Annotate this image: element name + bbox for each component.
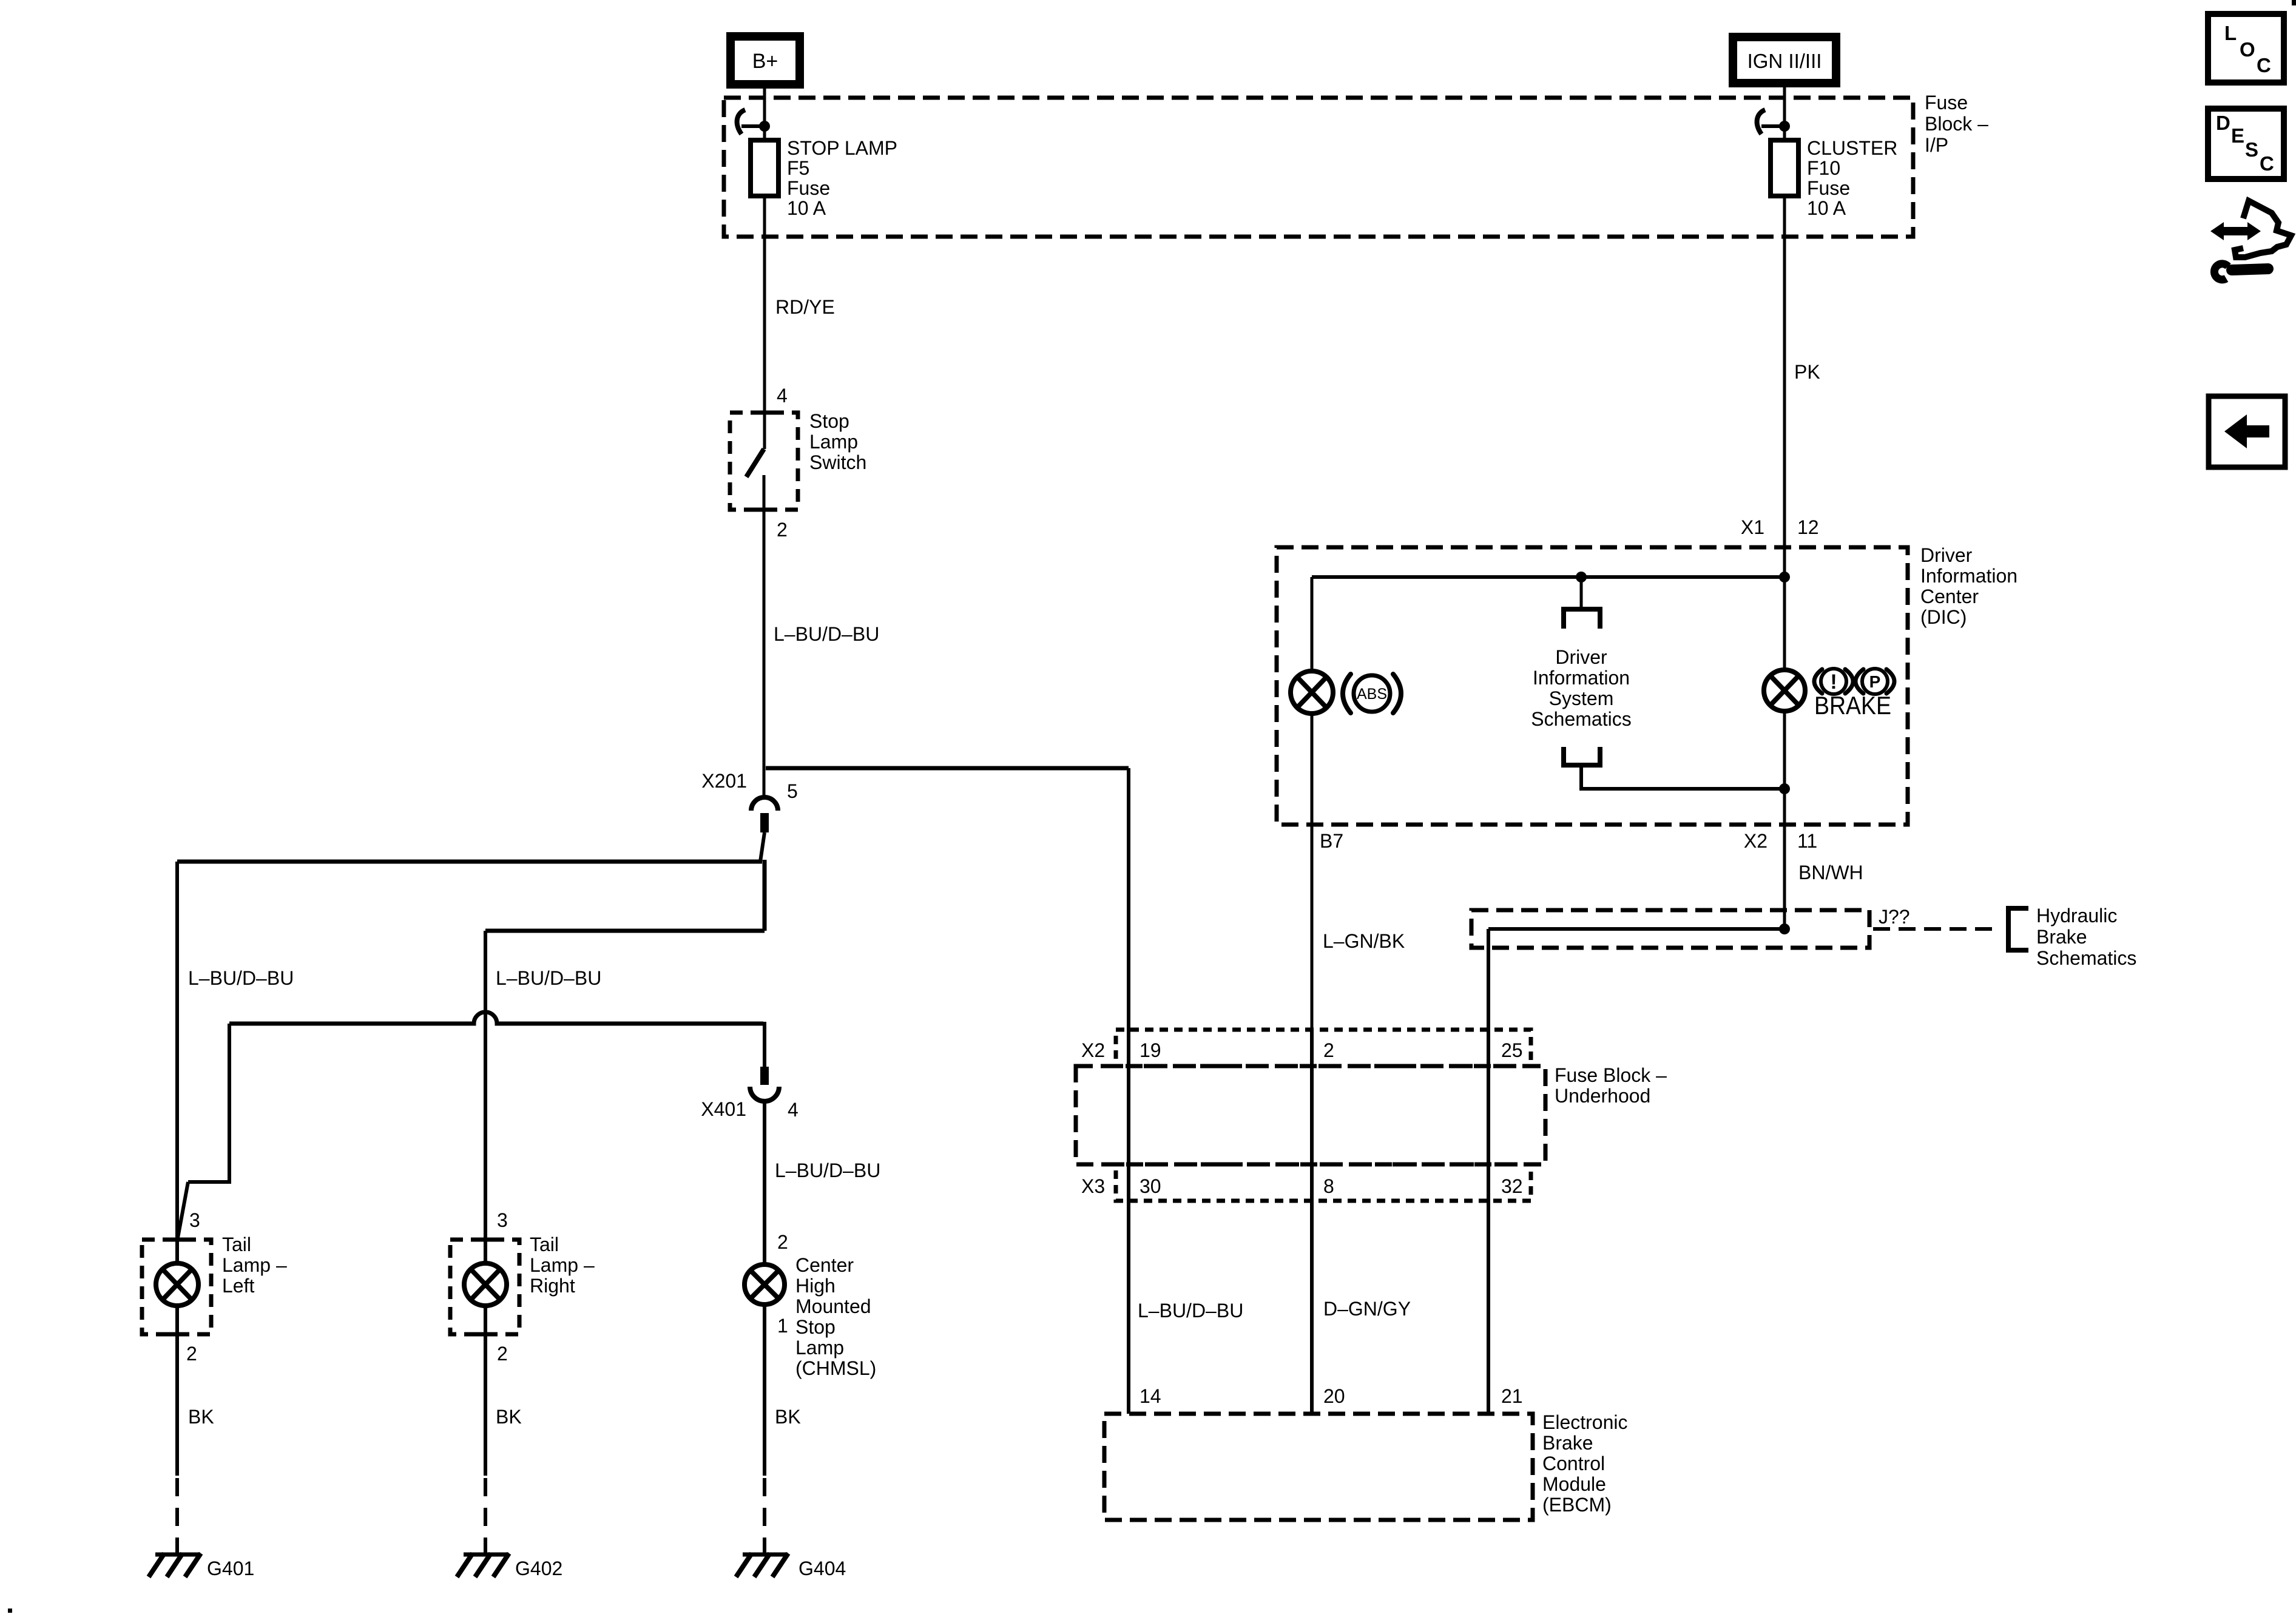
svg-text:10 A: 10 A xyxy=(1807,197,1846,219)
svg-text:Electronic: Electronic xyxy=(1542,1411,1628,1433)
power node B+ xyxy=(731,36,800,84)
svg-text:Fuse: Fuse xyxy=(1925,92,1968,113)
wire tail lamp right riser down xyxy=(484,931,487,1240)
wire left drop from CHMSL run xyxy=(188,1024,229,1182)
svg-text:Lamp –: Lamp – xyxy=(530,1254,595,1276)
svg-text:Mounted: Mounted xyxy=(795,1295,871,1317)
svg-text:3: 3 xyxy=(497,1209,508,1231)
svg-text:O: O xyxy=(2240,38,2255,61)
svg-text:5: 5 xyxy=(787,780,798,802)
pin 2 tick tail lamp right xyxy=(475,1332,496,1337)
svg-text:D: D xyxy=(2216,112,2230,134)
svg-text:C: C xyxy=(2257,54,2271,76)
fuse block underhood main dashed box xyxy=(1076,1066,1545,1164)
bus bar hook at fuse F10 xyxy=(1757,110,1765,134)
svg-text:2: 2 xyxy=(1323,1039,1334,1061)
svg-text:Tail: Tail xyxy=(530,1234,559,1255)
svg-text:X401: X401 xyxy=(701,1098,746,1120)
svg-text:RD/YE: RD/YE xyxy=(775,296,835,318)
svg-text:C: C xyxy=(2260,152,2274,175)
wire riser down to fuse block underhood pin 25 xyxy=(1487,929,1490,1030)
svg-text:25: 25 xyxy=(1501,1039,1523,1061)
svg-text:F10: F10 xyxy=(1807,157,1840,179)
wire tail lamp right lamp to pin 2 xyxy=(484,1306,487,1476)
wire ABS telltale to DIC bottom edge xyxy=(1311,714,1314,825)
ground G401 xyxy=(155,1553,200,1557)
fuse block I/P dashed outline xyxy=(724,98,1913,237)
svg-text:Center: Center xyxy=(1920,586,1979,607)
svg-text:G402: G402 xyxy=(515,1558,562,1579)
svg-text:I/P: I/P xyxy=(1925,134,1948,156)
wire bus tap to fuse F5 xyxy=(741,124,765,128)
ground G404 xyxy=(743,1553,788,1557)
svg-text:Center: Center xyxy=(795,1254,854,1276)
wire pin 19 through fuse block underhood xyxy=(1127,1030,1130,1204)
tail lamp left dashed box xyxy=(142,1240,211,1334)
svg-text:High: High xyxy=(795,1275,836,1297)
wire DIS schematics stem bottom to BRAKE leg xyxy=(1581,765,1784,789)
pin 3 tick tail lamp left xyxy=(167,1238,187,1242)
DIS schematics bottom bracket xyxy=(1564,747,1600,765)
svg-text:12: 12 xyxy=(1797,516,1819,538)
junction J dashed box xyxy=(1471,910,1869,948)
svg-text:L–BU/D–BU: L–BU/D–BU xyxy=(188,967,294,989)
svg-text:BRAKE: BRAKE xyxy=(1814,691,1891,720)
wire tail lamp left drop xyxy=(175,862,179,1263)
BRAKE (P) indicator circle xyxy=(1862,669,1888,694)
svg-text:F5: F5 xyxy=(787,157,809,179)
svg-text:Brake: Brake xyxy=(1542,1432,1593,1454)
EBCM dashed box xyxy=(1104,1414,1533,1520)
wire CHMSL riser down to connector X401 xyxy=(763,1022,766,1067)
svg-text:Fuse Block –: Fuse Block – xyxy=(1555,1064,1667,1086)
pin 3 tick tail lamp right xyxy=(475,1238,496,1242)
pin 4 tick at stop lamp switch xyxy=(754,411,775,415)
wire corner riser down from splice run xyxy=(763,860,767,931)
svg-text:Lamp: Lamp xyxy=(809,431,858,453)
wire right riser down to fuse block underhood pin 19 xyxy=(1127,768,1130,1030)
svg-text:2: 2 xyxy=(777,519,788,541)
svg-text:2: 2 xyxy=(777,1231,788,1253)
wire BK dashed to ground G401 xyxy=(175,1478,179,1555)
svg-text:G401: G401 xyxy=(207,1558,254,1579)
svg-text:(EBCM): (EBCM) xyxy=(1542,1494,1612,1516)
wire L-BU/D-BU splice run to tail lamp left xyxy=(177,860,762,864)
lamp tail left xyxy=(156,1263,198,1306)
svg-text:19: 19 xyxy=(1140,1039,1161,1061)
wire X401 to CHMSL lamp xyxy=(763,1102,766,1264)
ground G402 xyxy=(464,1553,508,1557)
svg-text:G404: G404 xyxy=(799,1558,846,1579)
svg-text:STOP LAMP: STOP LAMP xyxy=(787,137,897,159)
wire PK fuse F10 down to DIC pin X1-12 xyxy=(1783,196,1786,577)
pin 2 tick tail lamp left xyxy=(167,1332,187,1337)
junction dot DIC bottom right xyxy=(1779,783,1790,794)
wire L-BU/D-BU to EBCM pin 14 xyxy=(1127,1204,1130,1414)
svg-text:(DIC): (DIC) xyxy=(1920,606,1967,628)
junction dot J splice xyxy=(1779,923,1790,934)
svg-text:L: L xyxy=(2224,22,2237,44)
svg-text:X2: X2 xyxy=(1744,830,1768,852)
wire BK dashed to ground G402 xyxy=(484,1478,487,1555)
lamp BRAKE telltale xyxy=(1764,670,1805,711)
wire RD/YE fuse F5 to stop lamp switch pin 4 xyxy=(763,196,766,449)
stop lamp switch dashed box xyxy=(730,413,798,510)
wire DIC internal top run xyxy=(1312,575,1784,579)
svg-text:Control: Control xyxy=(1542,1453,1605,1474)
svg-text:B+: B+ xyxy=(752,50,778,73)
wire IGN II/III feed into fuse block I/P xyxy=(1783,83,1786,140)
svg-text:BK: BK xyxy=(775,1406,801,1428)
wire B+ feed into fuse block I/P xyxy=(763,83,766,140)
wire DIS schematics stem top xyxy=(1580,577,1583,609)
svg-text:!: ! xyxy=(1830,670,1837,694)
wire BN/WH junction run to left riser xyxy=(1488,927,1784,931)
svg-text:Driver: Driver xyxy=(1555,646,1607,668)
svg-text:2: 2 xyxy=(186,1343,197,1365)
junction dot DIS stem xyxy=(1576,572,1587,582)
connector X401 halves xyxy=(760,1067,769,1085)
svg-text:11: 11 xyxy=(1797,830,1817,852)
svg-text:10 A: 10 A xyxy=(787,197,826,219)
svg-text:System: System xyxy=(1549,687,1614,709)
fuse block underhood connector row X2 dashed xyxy=(1116,1030,1531,1066)
svg-text:Schematics: Schematics xyxy=(2036,947,2136,969)
wire tail lamp right into lamp xyxy=(484,1240,487,1263)
svg-text:Lamp –: Lamp – xyxy=(222,1254,287,1276)
lamp CHMSL xyxy=(745,1264,785,1305)
wire L-GN/BK B7 leg down to fuse block underhood pin 2 xyxy=(1311,825,1314,1030)
svg-text:IGN II/III: IGN II/III xyxy=(1747,50,1822,72)
svg-text:E: E xyxy=(2231,124,2244,147)
svg-text:Underhood: Underhood xyxy=(1555,1085,1650,1107)
svg-text:2: 2 xyxy=(497,1343,508,1365)
svg-text:Fuse: Fuse xyxy=(787,177,830,199)
svg-text:PK: PK xyxy=(1794,361,1820,383)
svg-text:(CHMSL): (CHMSL) xyxy=(795,1357,876,1379)
wire BRAKE telltale to junction J xyxy=(1783,711,1786,929)
svg-text:Hydraulic: Hydraulic xyxy=(2036,905,2117,927)
svg-text:X1: X1 xyxy=(1741,516,1764,538)
diagnostic wrench icon xyxy=(2210,201,2291,280)
svg-text:L–BU/D–BU: L–BU/D–BU xyxy=(496,967,601,989)
svg-text:S: S xyxy=(2245,138,2258,161)
ABS indicator symbol xyxy=(1354,675,1390,712)
svg-text:4: 4 xyxy=(788,1099,799,1121)
svg-text:3: 3 xyxy=(189,1209,200,1231)
svg-text:D–GN/GY: D–GN/GY xyxy=(1323,1298,1411,1320)
svg-text:Block –: Block – xyxy=(1925,113,1988,135)
junction dot DIC top right xyxy=(1779,572,1790,582)
fuse F10 10A xyxy=(1771,140,1798,196)
svg-text:Information: Information xyxy=(1533,667,1630,689)
svg-text:BK: BK xyxy=(496,1406,522,1428)
lamp tail right xyxy=(464,1263,507,1306)
wire BRAKE telltale leg xyxy=(1783,577,1786,670)
svg-text:Information: Information xyxy=(1920,565,2017,587)
svg-text:Stop: Stop xyxy=(795,1316,836,1338)
wire X201 lead diagonal to splice run xyxy=(760,832,765,862)
svg-text:Switch: Switch xyxy=(809,451,866,473)
svg-text:1: 1 xyxy=(777,1315,788,1337)
fuse block underhood connector row X3 dashed xyxy=(1116,1164,1531,1201)
svg-text:32: 32 xyxy=(1501,1175,1523,1197)
svg-text:BK: BK xyxy=(188,1406,214,1428)
wire L-BU/D-BU run to tail lamp right riser xyxy=(485,929,765,933)
power node IGN II/III xyxy=(1733,37,1836,83)
junction dot above fuse F5 xyxy=(759,121,770,132)
svg-text:Stop: Stop xyxy=(809,410,849,432)
svg-text:Lamp: Lamp xyxy=(795,1337,844,1359)
svg-text:L–BU/D–BU: L–BU/D–BU xyxy=(1138,1300,1243,1322)
wire stop lamp switch pin 2 down to connector X201 xyxy=(763,475,766,797)
wire CHMSL lamp to pin 1 and down xyxy=(763,1305,766,1476)
svg-text:P: P xyxy=(1869,672,1881,691)
driver information center DIC dashed box xyxy=(1277,547,1908,825)
svg-text:CLUSTER: CLUSTER xyxy=(1807,137,1897,159)
svg-text:Module: Module xyxy=(1542,1473,1606,1495)
svg-text:ABS: ABS xyxy=(1357,686,1387,703)
wire diagonal merge into tail lamp left drop xyxy=(178,1182,188,1238)
svg-text:X3: X3 xyxy=(1081,1175,1105,1197)
svg-text:L–BU/D–BU: L–BU/D–BU xyxy=(774,623,879,645)
svg-text:Tail: Tail xyxy=(222,1234,251,1255)
BRAKE (!) indicator circle xyxy=(1821,669,1846,694)
svg-text:Right: Right xyxy=(530,1275,575,1297)
wire bus tap to fuse F10 xyxy=(1761,124,1784,128)
svg-text:L–GN/BK: L–GN/BK xyxy=(1323,930,1405,952)
stop lamp switch blade xyxy=(746,449,764,477)
svg-text:B7: B7 xyxy=(1320,830,1343,852)
DESC index box xyxy=(2208,109,2284,179)
fuse F5 10A xyxy=(751,140,778,196)
tail lamp right dashed box xyxy=(450,1240,519,1334)
svg-text:20: 20 xyxy=(1323,1385,1345,1407)
DIS schematics top bracket xyxy=(1564,609,1600,629)
junction dot above fuse F10 xyxy=(1779,121,1790,132)
svg-text:X201: X201 xyxy=(701,770,747,792)
wire to EBCM pin 21 xyxy=(1487,1204,1490,1414)
svg-text:J??: J?? xyxy=(1879,906,1910,928)
svg-text:14: 14 xyxy=(1140,1385,1161,1407)
wire BK dashed to ground G404 xyxy=(763,1478,766,1555)
pin 2 tick at stop lamp switch xyxy=(754,508,775,512)
bus bar hook at fuse F5 xyxy=(737,110,745,134)
back arrow box xyxy=(2209,396,2285,467)
LOC index box xyxy=(2208,14,2284,83)
wire DIC left leg through ABS telltale xyxy=(1311,577,1314,671)
svg-text:Left: Left xyxy=(222,1275,254,1297)
svg-text:L–BU/D–BU: L–BU/D–BU xyxy=(775,1160,880,1181)
svg-text:21: 21 xyxy=(1501,1385,1523,1407)
back arrow glyph xyxy=(2224,414,2269,448)
svg-text:Driver: Driver xyxy=(1920,544,1973,566)
wire D-GN/GY to EBCM pin 20 xyxy=(1310,1204,1314,1414)
svg-text:8: 8 xyxy=(1323,1175,1334,1197)
svg-text:BN/WH: BN/WH xyxy=(1798,862,1863,883)
connector X201 halves xyxy=(751,797,778,811)
corner registration marks xyxy=(2292,0,2296,5)
wire L-BU/D-BU run to CHMSL with hop over riser xyxy=(229,1012,763,1024)
wire pin 25 through fuse block underhood xyxy=(1487,1030,1490,1204)
svg-text:4: 4 xyxy=(777,385,788,407)
dashed link to hydraulic brake schematics xyxy=(1873,927,1997,931)
lamp ABS telltale xyxy=(1291,671,1333,714)
svg-text:X2: X2 xyxy=(1081,1039,1105,1061)
svg-text:Brake: Brake xyxy=(2036,926,2087,948)
hydraulic brake schematics bracket xyxy=(2008,908,2028,950)
wire branch from X201 junction to right riser xyxy=(766,766,1129,771)
svg-text:Fuse: Fuse xyxy=(1807,177,1850,199)
wire pin 2 through fuse block underhood xyxy=(1310,1030,1314,1204)
svg-text:Schematics: Schematics xyxy=(1531,708,1631,730)
wire tail lamp left lamp to pin 2 xyxy=(175,1306,179,1476)
svg-text:30: 30 xyxy=(1140,1175,1161,1197)
